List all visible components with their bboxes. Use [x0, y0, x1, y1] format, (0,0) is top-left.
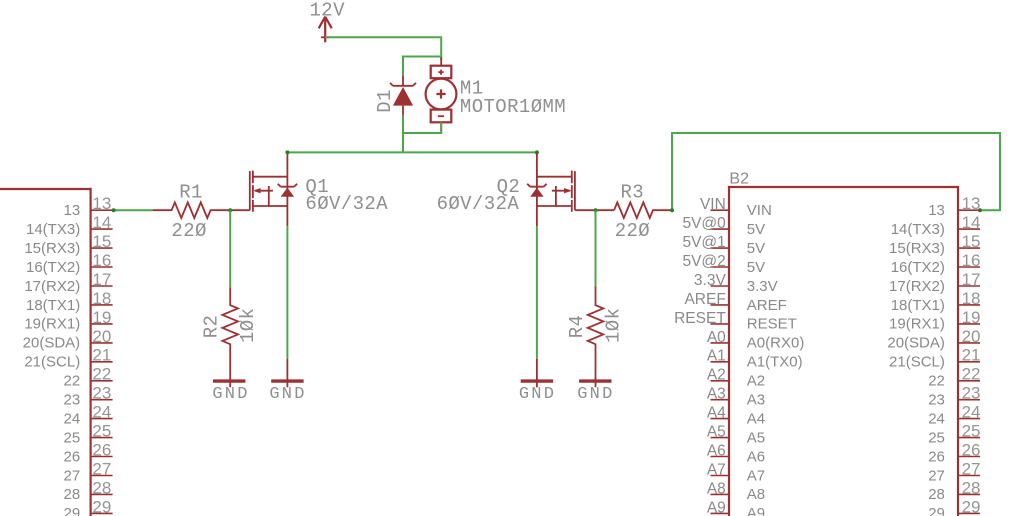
svg-text:21(SCL): 21(SCL): [889, 354, 945, 371]
R4 name label: [566, 315, 588, 339]
svg-text:A3: A3: [707, 386, 726, 403]
svg-text:21: 21: [92, 346, 111, 365]
B2 right pad number 17: [962, 270, 981, 289]
svg-text:5V: 5V: [747, 240, 765, 257]
svg-text:19: 19: [92, 308, 111, 327]
connector B1 pin stub 23: [91, 399, 113, 401]
R2 value label 10k: [237, 308, 259, 343]
B2 right pad number 29: [962, 497, 981, 516]
Q1 name label: [305, 176, 329, 198]
B2 pin name 19(RX1): [889, 316, 945, 333]
wire R2 branch down: [229, 210, 231, 287]
wire Q2 gate lead to R3: [575, 209, 614, 211]
svg-text:20(SDA): 20(SDA): [887, 335, 945, 352]
B2 pin name 27: [928, 467, 945, 484]
connector B1 pin name 27: [64, 467, 81, 484]
B2 left pin stub A0: [711, 342, 730, 344]
svg-text:A4: A4: [707, 405, 726, 422]
svg-text:A2: A2: [707, 367, 726, 384]
B2 pin name 14(TX3): [891, 221, 945, 238]
connector B1 pin name 25: [64, 429, 81, 446]
svg-text:GND: GND: [519, 385, 556, 404]
svg-text:23: 23: [928, 392, 945, 409]
svg-text:A8: A8: [707, 480, 726, 497]
svg-text:25: 25: [928, 429, 945, 446]
B2 left pad label AREF: [684, 291, 725, 308]
connector B1 pin name 13: [64, 202, 81, 219]
R4 value label 10k: [602, 308, 624, 343]
svg-text:A2: A2: [747, 373, 765, 390]
B2 right pad number 23: [962, 384, 981, 403]
D1 name label: [374, 89, 396, 113]
ground symbol GND (R4): [577, 381, 614, 404]
B2 left pad label A0: [707, 329, 726, 346]
B2 left pin stub 5V@2: [711, 266, 730, 268]
wire D1 anode / motor minus to rail: [403, 115, 441, 152]
svg-text:23: 23: [92, 384, 111, 403]
svg-text:24: 24: [928, 410, 945, 427]
svg-text:3.3V: 3.3V: [747, 278, 778, 295]
B2 pin name A3: [747, 392, 765, 409]
B2 pin name 20(SDA): [887, 335, 945, 352]
svg-text:19(RX1): 19(RX1): [24, 316, 80, 333]
B2 right pin stub 14: [958, 228, 980, 230]
B2 pin name 22: [928, 373, 945, 390]
B2 right pin stub 18: [958, 304, 980, 306]
svg-text:D1: D1: [374, 89, 396, 113]
diode D1: [390, 75, 416, 115]
wire 12V rail: [325, 37, 441, 60]
B2 pin name A2: [747, 373, 765, 390]
B2 pin name A4: [747, 410, 765, 427]
svg-text:MOTOR1ØMM: MOTOR1ØMM: [460, 96, 566, 118]
connector B1 pad number 20: [92, 327, 111, 346]
svg-text:26: 26: [64, 448, 81, 465]
connector B1 pad number 16: [92, 251, 111, 270]
svg-text:28: 28: [962, 478, 981, 497]
connector B1 pin name 18(TX1): [26, 297, 80, 314]
svg-text:13: 13: [928, 202, 945, 219]
svg-text:5V: 5V: [747, 221, 765, 238]
B2 right pad number 22: [962, 365, 981, 384]
R1 value label 220: [171, 220, 206, 242]
svg-text:1Øk: 1Øk: [237, 308, 259, 343]
svg-text:13: 13: [64, 202, 81, 219]
connector B1 pin stub 20(SDA): [91, 342, 113, 344]
B2 right pin stub 27: [958, 475, 980, 477]
ground symbol GND (Q1): [269, 381, 306, 404]
B2 pin name 18(TX1): [891, 297, 945, 314]
junction dot rail right (Q2 drain): [535, 150, 539, 154]
B2 left pin stub A4: [711, 418, 730, 420]
B2 right pin stub 25: [958, 437, 980, 439]
connector B1 pad number 14: [92, 213, 111, 232]
IC B2 box: [729, 187, 958, 516]
B2 pin name A7: [747, 467, 765, 484]
svg-text:VIN: VIN: [747, 202, 772, 219]
R3 name label: [621, 182, 645, 204]
wire B1 pin13 to R1: [113, 209, 153, 211]
B2 pin name 5V: [747, 221, 765, 238]
svg-text:A5: A5: [707, 424, 726, 441]
connector B1 pin stub 24: [91, 418, 113, 420]
svg-text:24: 24: [92, 403, 111, 422]
connector B1 pin stub 18(TX1): [91, 304, 113, 306]
svg-text:20(SDA): 20(SDA): [23, 335, 81, 352]
connector B1 pin name 17(RX2): [24, 278, 80, 295]
svg-text:15(RX3): 15(RX3): [24, 240, 80, 257]
connector B1 pin name 21(SCL): [24, 354, 80, 371]
B2 pin name 26: [928, 448, 945, 465]
svg-text:20: 20: [92, 327, 111, 346]
svg-text:14(TX3): 14(TX3): [26, 221, 80, 238]
connector B1 pin name 15(RX3): [24, 240, 80, 257]
connector B1 pad number 26: [92, 440, 111, 459]
12V text label: [310, 0, 346, 21]
svg-text:17: 17: [962, 270, 981, 289]
svg-text:17(RX2): 17(RX2): [24, 278, 80, 295]
svg-text:18(TX1): 18(TX1): [891, 297, 945, 314]
connector B1 pad number 24: [92, 403, 111, 422]
transistor Q1 (n-channel MOSFET): [250, 153, 297, 226]
B2 pin name 25: [928, 429, 945, 446]
svg-text:A0: A0: [707, 329, 726, 346]
B2 right pad number 19: [962, 308, 981, 327]
svg-text:28: 28: [92, 478, 111, 497]
resistor R3: [614, 202, 672, 218]
B2 left pin stub A2: [711, 380, 730, 382]
connector B1 pin stub 26: [91, 456, 113, 458]
B2 right pad number 20: [962, 327, 981, 346]
svg-text:GND: GND: [212, 385, 249, 404]
svg-text:RESET: RESET: [674, 310, 726, 327]
B2 pin name 13: [928, 202, 945, 219]
Q1 value label 60V/32A: [305, 193, 388, 215]
svg-text:6ØV/32A: 6ØV/32A: [305, 193, 388, 215]
connector B1 pin name 29: [64, 505, 81, 516]
ground symbol GND (Q2): [519, 381, 556, 404]
B2 right pad number 24: [962, 403, 981, 422]
svg-text:A7: A7: [707, 461, 726, 478]
B2 left pad label 5V@2: [682, 253, 725, 270]
B2 left pin stub VIN: [711, 209, 730, 211]
R3 value label 220: [615, 220, 650, 242]
svg-text:15: 15: [92, 232, 111, 251]
svg-text:22: 22: [962, 365, 981, 384]
B2 pin name A8: [747, 486, 765, 503]
connector B1 pin name 22: [64, 373, 81, 390]
connector B1 pad number 22: [92, 365, 111, 384]
svg-text:24: 24: [962, 403, 981, 422]
svg-text:A5: A5: [747, 429, 765, 446]
svg-text:22: 22: [92, 365, 111, 384]
B2 pin name 17(RX2): [889, 278, 945, 295]
B2 left pin stub A6: [711, 456, 730, 458]
B2 left pin stub A8: [711, 493, 730, 495]
svg-text:6ØV/32A: 6ØV/32A: [437, 193, 520, 215]
svg-text:5V@0: 5V@0: [682, 215, 726, 232]
svg-text:28: 28: [64, 486, 81, 503]
transistor Q2 (n-channel MOSFET, mirrored): [527, 153, 575, 226]
svg-text:B2: B2: [729, 171, 749, 188]
connector B1 pin name 19(RX1): [24, 316, 80, 333]
wire Q2 source to GND: [536, 226, 538, 359]
B2 left pin stub A9: [711, 512, 730, 514]
svg-text:R4: R4: [566, 315, 588, 339]
svg-text:15(RX3): 15(RX3): [889, 240, 945, 257]
junction dot R2 branch: [228, 208, 232, 212]
B2 left pad label A5: [707, 424, 726, 441]
B2 right pin stub 20: [958, 342, 980, 344]
supply symbol 12V: [319, 17, 332, 43]
B2 left pad label A4: [707, 405, 726, 422]
svg-text:A8: A8: [747, 486, 765, 503]
B2 pin name 5V: [747, 259, 765, 276]
B2 pin name 16(TX2): [891, 259, 945, 276]
svg-text:5V: 5V: [747, 259, 765, 276]
svg-text:R3: R3: [621, 182, 645, 204]
B2 right pad number 16: [962, 251, 981, 270]
B2 right pad number 14: [962, 213, 981, 232]
connector B1 pin name 14(TX3): [26, 221, 80, 238]
svg-text:5V@1: 5V@1: [682, 234, 725, 251]
connector B1 pin name 23: [64, 392, 81, 409]
svg-text:12V: 12V: [310, 0, 346, 21]
svg-text:17: 17: [92, 270, 111, 289]
B2 right pin stub 24: [958, 418, 980, 420]
svg-text:A9: A9: [747, 505, 765, 516]
B2 right pin stub 28: [958, 493, 980, 495]
B2 pin name 24: [928, 410, 945, 427]
junction dot at B1 pin13: [112, 208, 116, 212]
B2 right pin stub 23: [958, 399, 980, 401]
motor M1: [426, 58, 457, 134]
svg-text:22: 22: [64, 373, 81, 390]
svg-text:25: 25: [64, 429, 81, 446]
B2 pin name 21(SCL): [889, 354, 945, 371]
Q2 name label: [497, 176, 521, 198]
resistor R4: [588, 286, 604, 387]
svg-text:15: 15: [962, 232, 981, 251]
B2 right pin stub 19: [958, 323, 980, 325]
svg-text:13: 13: [962, 194, 981, 213]
svg-text:29: 29: [928, 505, 945, 516]
B2 left pad label VIN: [700, 196, 726, 213]
junction dot at B2 pin13: [978, 208, 982, 212]
B2 pin name 15(RX3): [889, 240, 945, 257]
Q2 value label 60V/32A: [437, 193, 520, 215]
connector B1 pad number 27: [92, 459, 111, 478]
connector B1 pad number 19: [92, 308, 111, 327]
connector B1 pin stub 22: [91, 380, 113, 382]
B2 pin name 29: [928, 505, 945, 516]
svg-text:3.3V: 3.3V: [694, 272, 727, 289]
resistor R1: [153, 202, 250, 218]
connector B1 pad number 21: [92, 346, 111, 365]
B2 left pad label A6: [707, 442, 726, 459]
B2 pin name 28: [928, 486, 945, 503]
svg-text:21: 21: [962, 346, 981, 365]
connector B1 pin stub 15(RX3): [91, 247, 113, 249]
connector B1 pin stub 21(SCL): [91, 361, 113, 363]
connector B1 pin stub 14(TX3): [91, 228, 113, 230]
svg-text:24: 24: [64, 410, 81, 427]
B2 left pad label A3: [707, 386, 726, 403]
svg-text:GND: GND: [577, 385, 614, 404]
B2 right pin stub 22: [958, 380, 980, 382]
B2 right pin stub 26: [958, 456, 980, 458]
B2 left pin stub 5V@1: [711, 247, 730, 249]
B2 pin name A0(RX0): [747, 335, 805, 352]
svg-text:16(TX2): 16(TX2): [891, 259, 945, 276]
svg-text:A4: A4: [747, 410, 765, 427]
M1 name label: [460, 77, 484, 99]
M1 value label MOTOR10MM: [460, 96, 566, 118]
connector B1 pin stub 17(RX2): [91, 285, 113, 287]
B2 left pin stub 3.3V: [711, 285, 730, 287]
B2 pin name A1(TX0): [747, 354, 803, 371]
B2 right pad number 18: [962, 289, 981, 308]
svg-text:A1: A1: [707, 348, 726, 365]
svg-text:16: 16: [962, 251, 981, 270]
svg-text:26: 26: [92, 440, 111, 459]
svg-text:27: 27: [962, 459, 981, 478]
svg-text:22Ø: 22Ø: [171, 220, 206, 242]
connector B1 pad number 15: [92, 232, 111, 251]
junction dot R3 output corner: [670, 208, 674, 212]
svg-text:14: 14: [962, 213, 981, 232]
connector B1 box (partial, left edge): [0, 188, 91, 516]
connector B1 pad number 23: [92, 384, 111, 403]
connector B1 pin stub 25: [91, 437, 113, 439]
svg-text:A0(RX0): A0(RX0): [747, 335, 805, 352]
svg-text:27: 27: [92, 459, 111, 478]
B2 right pin stub 15: [958, 247, 980, 249]
connector B1 pad number 18: [92, 289, 111, 308]
B2 left pin stub 5V@0: [711, 228, 730, 230]
wire Q1 source to GND: [286, 226, 288, 359]
B2 pin name A9: [747, 505, 765, 516]
svg-text:22: 22: [928, 373, 945, 390]
B2 right pad number 28: [962, 478, 981, 497]
svg-text:A7: A7: [747, 467, 765, 484]
B2 left pin stub A5: [711, 437, 730, 439]
svg-text:GND: GND: [269, 385, 306, 404]
svg-text:27: 27: [928, 467, 945, 484]
B2 left pad label A1: [707, 348, 726, 365]
B2 right pad number 25: [962, 422, 981, 441]
connector B1 pin stub 29: [91, 512, 113, 514]
svg-text:13: 13: [92, 194, 111, 213]
wire drain rail Q1-Q2: [287, 151, 537, 153]
B2 left pin stub AREF: [711, 304, 730, 306]
B2 right pin stub 16: [958, 266, 980, 268]
svg-text:28: 28: [928, 486, 945, 503]
B2 pin name 23: [928, 392, 945, 409]
svg-text:VIN: VIN: [700, 196, 726, 213]
connector B1 pad number 13: [92, 194, 111, 213]
connector B1 pin name 26: [64, 448, 81, 465]
svg-text:29: 29: [64, 505, 81, 516]
svg-text:26: 26: [962, 440, 981, 459]
B2 left pad label A9: [707, 499, 726, 516]
svg-text:29: 29: [962, 497, 981, 516]
B2 right pad number 21: [962, 346, 981, 365]
svg-text:18(TX1): 18(TX1): [26, 297, 80, 314]
Q1 GND pin lead: [286, 359, 288, 388]
svg-text:18: 18: [962, 289, 981, 308]
connector B1 pad number 17: [92, 270, 111, 289]
B2 name label: [729, 171, 749, 188]
wire R3 to B2 pin13 (routed over top): [672, 133, 1000, 210]
B2 right pad number 15: [962, 232, 981, 251]
svg-text:14: 14: [92, 213, 111, 232]
B2 left pad label A2: [707, 367, 726, 384]
connector B1 pad number 25: [92, 422, 111, 441]
wire R4 branch down: [595, 210, 597, 286]
svg-text:14(TX3): 14(TX3): [891, 221, 945, 238]
B2 right pin stub 13: [958, 209, 980, 211]
svg-text:25: 25: [962, 422, 981, 441]
svg-text:RESET: RESET: [747, 316, 797, 333]
svg-text:1Øk: 1Øk: [602, 308, 624, 343]
B2 left pad label RESET: [674, 310, 726, 327]
svg-text:16: 16: [92, 251, 111, 270]
svg-text:AREF: AREF: [747, 297, 787, 314]
B2 right pin stub 21: [958, 361, 980, 363]
connector B1 pin name 16(TX2): [26, 259, 80, 276]
svg-text:20: 20: [962, 327, 981, 346]
svg-text:A6: A6: [747, 448, 765, 465]
connector B1 pad number 28: [92, 478, 111, 497]
connector B1 pin stub 16(TX2): [91, 266, 113, 268]
B2 left pad label 5V@1: [682, 234, 725, 251]
svg-text:5V@2: 5V@2: [682, 253, 725, 270]
svg-text:16(TX2): 16(TX2): [26, 259, 80, 276]
B2 pin name A6: [747, 448, 765, 465]
B2 pin name RESET: [747, 316, 797, 333]
svg-text:AREF: AREF: [684, 291, 725, 308]
svg-text:A6: A6: [707, 442, 726, 459]
B2 pin name A5: [747, 429, 765, 446]
connector B1 pin stub 13: [91, 209, 113, 211]
connector B1 pin name 28: [64, 486, 81, 503]
svg-text:22Ø: 22Ø: [615, 220, 650, 242]
connector B1 pad number 29: [92, 497, 111, 516]
svg-text:23: 23: [64, 392, 81, 409]
R1 name label: [179, 182, 203, 204]
resistor R2: [222, 287, 238, 387]
svg-text:A9: A9: [707, 499, 726, 516]
Q2 GND pin lead: [536, 359, 538, 388]
B2 left pin stub A3: [711, 399, 730, 401]
svg-text:R1: R1: [179, 182, 203, 204]
svg-text:18: 18: [92, 289, 111, 308]
R2 name label: [201, 315, 223, 339]
B2 right pad number 13: [962, 194, 981, 213]
svg-text:17(RX2): 17(RX2): [889, 278, 945, 295]
B2 left pin stub A7: [711, 475, 730, 477]
svg-text:26: 26: [928, 448, 945, 465]
connector B1 pin stub 28: [91, 493, 113, 495]
B2 left pad label A8: [707, 480, 726, 497]
B2 left pin stub A1: [711, 361, 730, 363]
B2 pin name AREF: [747, 297, 787, 314]
B2 left pin stub RESET: [711, 323, 730, 325]
connector B1 pin name 20(SDA): [23, 335, 81, 352]
junction dot R4 branch: [594, 208, 598, 212]
ground symbol GND (R2): [212, 381, 249, 404]
